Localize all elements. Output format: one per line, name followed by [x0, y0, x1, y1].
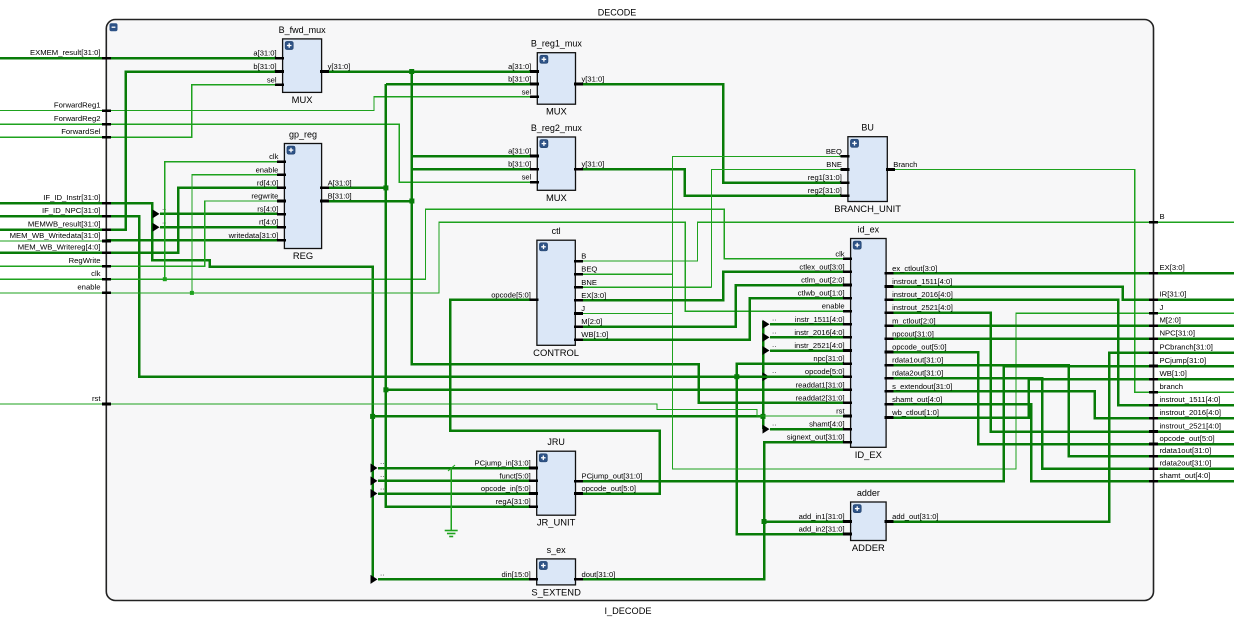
svg-text:opcode_out[5:0]: opcode_out[5:0] — [1160, 434, 1215, 443]
svg-text:ctl: ctl — [552, 226, 561, 236]
svg-text:PCjump[31:0]: PCjump[31:0] — [1160, 356, 1207, 365]
svg-text:JR_UNIT: JR_UNIT — [537, 517, 576, 528]
svg-text:enable: enable — [822, 302, 845, 311]
svg-text:..: .. — [380, 569, 384, 578]
svg-text:B_fwd_mux: B_fwd_mux — [279, 25, 327, 35]
svg-text:MEM_WB_Writereg[4:0]: MEM_WB_Writereg[4:0] — [18, 243, 101, 252]
svg-text:rt[4:0]: rt[4:0] — [259, 218, 278, 227]
svg-text:y[31:0]: y[31:0] — [582, 160, 605, 169]
svg-text:dout[31:0]: dout[31:0] — [582, 570, 616, 579]
svg-text:s_extendout[31:0]: s_extendout[31:0] — [892, 382, 952, 391]
svg-text:B_reg2_mux: B_reg2_mux — [531, 123, 583, 133]
svg-text:..: .. — [380, 483, 384, 492]
svg-text:PCjump_in[31:0]: PCjump_in[31:0] — [475, 459, 531, 468]
svg-text:ADDER: ADDER — [852, 542, 885, 553]
svg-text:s_ex: s_ex — [547, 545, 567, 555]
svg-text:wb_ctlout[1:0]: wb_ctlout[1:0] — [891, 408, 939, 417]
svg-text:reg2[31:0]: reg2[31:0] — [808, 186, 842, 195]
svg-text:rdata1out[31:0]: rdata1out[31:0] — [1160, 446, 1212, 455]
svg-text:..: .. — [772, 366, 776, 375]
svg-text:instrout_2016[4:0]: instrout_2016[4:0] — [1160, 408, 1222, 417]
svg-text:instr_2521[4:0]: instr_2521[4:0] — [794, 341, 844, 350]
svg-text:shamt[4:0]: shamt[4:0] — [809, 420, 844, 429]
svg-text:BU: BU — [861, 123, 874, 133]
svg-text:instr_2016[4:0]: instr_2016[4:0] — [794, 328, 844, 337]
svg-text:J: J — [581, 304, 585, 313]
svg-text:b[31:0]: b[31:0] — [253, 62, 276, 71]
svg-text:opcode_out[5:0]: opcode_out[5:0] — [892, 343, 946, 352]
svg-text:..: .. — [772, 327, 776, 336]
svg-text:clk: clk — [91, 269, 101, 278]
svg-text:RegWrite: RegWrite — [69, 256, 101, 265]
svg-text:opcode[5:0]: opcode[5:0] — [491, 290, 531, 299]
svg-text:rdata2out[31:0]: rdata2out[31:0] — [1160, 459, 1212, 468]
svg-text:REG: REG — [293, 250, 313, 261]
svg-text:branch: branch — [1160, 382, 1184, 391]
svg-text:instrout_2521[4:0]: instrout_2521[4:0] — [1160, 421, 1222, 430]
svg-text:BNE: BNE — [581, 278, 597, 287]
svg-text:BEQ: BEQ — [581, 265, 597, 274]
svg-text:B: B — [581, 252, 586, 261]
svg-text:ForwardReg1: ForwardReg1 — [54, 100, 101, 109]
svg-text:readdat1[31:0]: readdat1[31:0] — [796, 380, 845, 389]
svg-text:EX[3:0]: EX[3:0] — [1160, 263, 1185, 272]
svg-text:ctlex_out[3:0]: ctlex_out[3:0] — [799, 262, 844, 271]
svg-text:sel: sel — [267, 75, 277, 84]
svg-text:PCjump_out[31:0]: PCjump_out[31:0] — [582, 472, 643, 481]
svg-text:rst: rst — [92, 394, 101, 403]
svg-text:MUX: MUX — [546, 106, 568, 117]
svg-text:clk: clk — [835, 249, 844, 258]
svg-text:JRU: JRU — [547, 437, 565, 447]
svg-text:WB[1:0]: WB[1:0] — [1160, 369, 1187, 378]
svg-text:NPC[31:0]: NPC[31:0] — [1160, 329, 1195, 338]
svg-text:IF_ID_NPC[31:0]: IF_ID_NPC[31:0] — [42, 206, 101, 215]
svg-text:a[31:0]: a[31:0] — [253, 49, 276, 58]
svg-text:opcode[5:0]: opcode[5:0] — [805, 367, 845, 376]
svg-text:shamt_out[4:0]: shamt_out[4:0] — [892, 395, 942, 404]
svg-text:..: .. — [772, 314, 776, 323]
svg-text:reg1[31:0]: reg1[31:0] — [808, 173, 842, 182]
svg-text:rd[4:0]: rd[4:0] — [257, 178, 279, 187]
svg-text:J: J — [1160, 303, 1164, 312]
svg-text:ID_EX: ID_EX — [855, 449, 883, 460]
svg-text:b[31:0]: b[31:0] — [508, 75, 531, 84]
svg-text:instrout_1511[4:0]: instrout_1511[4:0] — [892, 277, 952, 286]
svg-text:y[31:0]: y[31:0] — [328, 62, 351, 71]
svg-text:..: .. — [380, 457, 384, 466]
svg-text:rdata1out[31:0]: rdata1out[31:0] — [892, 356, 943, 365]
svg-text:writedata[31:0]: writedata[31:0] — [228, 231, 279, 240]
svg-text:MUX: MUX — [292, 94, 314, 105]
svg-text:a[31:0]: a[31:0] — [508, 147, 531, 156]
svg-text:..: .. — [772, 340, 776, 349]
svg-text:rs[4:0]: rs[4:0] — [257, 205, 278, 214]
svg-text:B[31:0]: B[31:0] — [328, 192, 352, 201]
svg-text:B: B — [1160, 212, 1165, 221]
svg-text:add_in1[31:0]: add_in1[31:0] — [799, 512, 845, 521]
svg-text:din[15:0]: din[15:0] — [502, 570, 531, 579]
svg-text:PCbranch[31:0]: PCbranch[31:0] — [1160, 343, 1213, 352]
svg-text:DECODE: DECODE — [598, 8, 637, 18]
svg-text:clk: clk — [269, 152, 278, 161]
svg-text:EXMEM_result[31:0]: EXMEM_result[31:0] — [30, 48, 101, 57]
svg-text:B_reg1_mux: B_reg1_mux — [531, 39, 583, 49]
svg-text:BRANCH_UNIT: BRANCH_UNIT — [834, 203, 901, 214]
svg-text:rdata2out[31:0]: rdata2out[31:0] — [892, 369, 943, 378]
svg-text:add_out[31:0]: add_out[31:0] — [892, 512, 938, 521]
svg-text:ctlwb_out[1:0]: ctlwb_out[1:0] — [798, 289, 845, 298]
svg-text:instr_1511[4:0]: instr_1511[4:0] — [795, 315, 845, 324]
svg-text:enable: enable — [256, 165, 279, 174]
svg-text:ex_ctlout[3:0]: ex_ctlout[3:0] — [892, 264, 937, 273]
svg-text:enable: enable — [77, 283, 100, 292]
svg-text:MEM_WB_Writedata[31:0]: MEM_WB_Writedata[31:0] — [10, 231, 101, 240]
svg-text:instrout_1511[4:0]: instrout_1511[4:0] — [1160, 395, 1221, 404]
svg-text:adder: adder — [857, 488, 880, 498]
svg-text:m_ctlout[2:0]: m_ctlout[2:0] — [892, 316, 935, 325]
svg-text:BNE: BNE — [826, 160, 842, 169]
svg-text:b[31:0]: b[31:0] — [508, 160, 531, 169]
svg-text:CONTROL: CONTROL — [533, 347, 579, 358]
svg-text:sel: sel — [522, 87, 532, 96]
svg-text:shamt_out[4:0]: shamt_out[4:0] — [1160, 471, 1211, 480]
svg-text:funct[5:0]: funct[5:0] — [499, 471, 530, 480]
svg-text:..: .. — [772, 418, 776, 427]
svg-text:y[31:0]: y[31:0] — [582, 75, 605, 84]
svg-text:MEMWB_result[31:0]: MEMWB_result[31:0] — [28, 220, 101, 229]
svg-text:A[31:0]: A[31:0] — [328, 178, 352, 187]
svg-text:IR[31:0]: IR[31:0] — [1160, 290, 1187, 299]
svg-text:add_in2[31:0]: add_in2[31:0] — [799, 525, 845, 534]
svg-text:regA[31:0]: regA[31:0] — [496, 497, 531, 506]
svg-text:instrout_2016[4:0]: instrout_2016[4:0] — [892, 290, 953, 299]
svg-text:M[2:0]: M[2:0] — [581, 317, 602, 326]
svg-text:opcode_out[5:0]: opcode_out[5:0] — [582, 484, 636, 493]
svg-text:instrout_2521[4:0]: instrout_2521[4:0] — [892, 303, 953, 312]
svg-text:IF_ID_Instr[31:0]: IF_ID_Instr[31:0] — [43, 193, 100, 202]
svg-text:signext_out[31:0]: signext_out[31:0] — [787, 433, 845, 442]
svg-text:M[2:0]: M[2:0] — [1160, 316, 1181, 325]
svg-text:gp_reg: gp_reg — [289, 130, 317, 140]
svg-text:regwrite: regwrite — [251, 192, 278, 201]
svg-text:opcode_in[5:0]: opcode_in[5:0] — [481, 484, 531, 493]
svg-text:npc[31:0]: npc[31:0] — [813, 354, 844, 363]
svg-text:ForwardSel: ForwardSel — [61, 127, 101, 136]
svg-text:id_ex: id_ex — [858, 225, 880, 235]
svg-text:ctlm_out[2:0]: ctlm_out[2:0] — [801, 276, 844, 285]
svg-text:npcout[31:0]: npcout[31:0] — [892, 329, 934, 338]
svg-text:BEQ: BEQ — [826, 147, 842, 156]
svg-text:WB[1:0]: WB[1:0] — [581, 330, 608, 339]
svg-text:EX[3:0]: EX[3:0] — [581, 291, 606, 300]
svg-text:S_EXTEND: S_EXTEND — [531, 586, 581, 597]
svg-text:I_DECODE: I_DECODE — [605, 606, 652, 616]
svg-text:a[31:0]: a[31:0] — [508, 62, 531, 71]
svg-text:sel: sel — [522, 173, 532, 182]
svg-text:..: .. — [380, 470, 384, 479]
svg-text:rst: rst — [836, 407, 845, 416]
svg-text:Branch: Branch — [893, 160, 917, 169]
svg-text:MUX: MUX — [546, 192, 568, 203]
svg-text:ForwardReg2: ForwardReg2 — [54, 114, 101, 123]
svg-text:readdat2[31:0]: readdat2[31:0] — [796, 393, 845, 402]
